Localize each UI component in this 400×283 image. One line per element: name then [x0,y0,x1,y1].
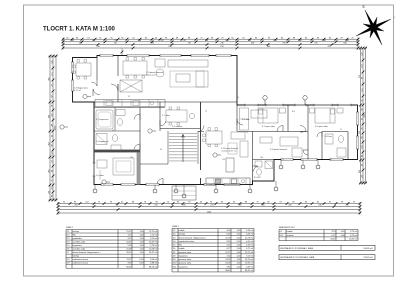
svg-text:1,88 m2: 1,88 m2 [150,263,158,265]
windows north walls [100,54,113,57]
facade marker circles [93,96,320,198]
svg-text:10,95 m2: 10,95 m2 [245,263,254,265]
furniture apt2 kitchen counter [206,158,250,184]
svg-text:95: 95 [112,130,114,132]
furniture apt1 big dining table [123,58,147,79]
total box NETO [279,245,375,250]
svg-text:dnevni boravak i blagovaonica: dnevni boravak i blagovaonica [179,236,207,239]
furniture annex bathroom [255,161,273,175]
reference bubbles [60,94,221,184]
dimension chain left [48,55,57,202]
interior door swing arcs [91,80,322,185]
svg-text:kuhinja: kuhinja [73,256,80,258]
svg-text:60: 60 [210,184,212,186]
svg-text:7,52 m2: 7,52 m2 [246,255,254,257]
svg-text:98,74 m2: 98,74 m2 [149,266,158,268]
svg-text:zajednicka terasa: zajednicka terasa [179,240,196,243]
svg-text:10,28: 10,28 [126,249,132,251]
svg-text:5,85 m2: 5,85 m2 [246,266,254,268]
svg-text:TLOCRT 1. KATA M 1:100: TLOCRT 1. KATA M 1:100 [43,27,116,33]
svg-text:10,45: 10,45 [330,239,336,241]
svg-text:94,87 m2: 94,87 m2 [245,270,254,272]
svg-text:WC: WC [179,245,183,247]
svg-text:25,76: 25,76 [225,237,231,239]
furniture apt1 kitchen counter [95,100,165,107]
svg-text:stubiste: stubiste [287,234,295,237]
svg-text:10,47: 10,47 [126,242,132,244]
svg-text:3.5 WC: 3.5 WC [254,177,261,179]
svg-text:14,55: 14,55 [225,259,231,261]
interior walls [94,56,348,185]
svg-text:4,34 m2: 4,34 m2 [246,230,254,232]
svg-text:WC: WC [73,235,77,237]
svg-text:240: 240 [260,157,263,159]
svg-text:219,82 m2: 219,82 m2 [363,257,373,259]
svg-text:240: 240 [300,132,303,134]
furniture bathroom upper fixtures [96,110,125,130]
svg-text:STAN 3: STAN 3 [172,225,180,228]
furniture apt1 living room (sofa rug table) [155,59,208,87]
svg-text:kuhinja: kuhinja [179,234,186,236]
svg-text:1.2 kupaonica: 1.2 kupaonica [96,119,109,121]
svg-text:60: 60 [160,149,162,151]
svg-text:196,82 m2: 196,82 m2 [363,248,373,250]
svg-text:6,77 m2: 6,77 m2 [246,248,254,250]
svg-text:110: 110 [222,159,225,161]
svg-text:60: 60 [237,97,239,99]
svg-text:garderoba: garderoba [73,237,83,240]
svg-text:70: 70 [282,159,284,161]
svg-text:260: 260 [130,157,133,159]
svg-text:1.4 soba: 1.4 soba [96,175,105,177]
svg-text:15,12: 15,12 [126,231,132,233]
svg-text:96,87: 96,87 [225,270,231,272]
svg-text:15,77 m2: 15,77 m2 [245,252,254,254]
small inline dimensions [112,96,342,186]
svg-text:1.7 soba: 1.7 soba [162,115,171,117]
compass rose north arrow [356,5,395,45]
svg-text:95: 95 [128,96,130,98]
svg-text:10,95: 10,95 [225,263,231,265]
svg-text:15,12 m2: 15,12 m2 [149,231,158,233]
dimension chain bottom [57,202,362,215]
svg-text:hodnik: hodnik [287,231,294,233]
svg-text:I: I [394,16,395,20]
table ZAJEDNICKI DIO [279,230,358,241]
svg-text:2,35 m2: 2,35 m2 [246,245,254,247]
svg-text:6,35 m2: 6,35 m2 [246,234,254,236]
room schedule table STAN 3 [172,229,254,272]
svg-text:3,15 m2: 3,15 m2 [150,238,158,240]
svg-text:4,61 m2: 4,61 m2 [246,241,254,243]
windows west and east walls [71,62,74,73]
svg-text:10,45 m2: 10,45 m2 [349,239,358,241]
dimension chain top [62,37,360,56]
svg-text:10,28 m2: 10,28 m2 [149,249,158,251]
svg-text:zasebna soba: zasebna soba [73,249,86,251]
svg-text:spavaca soba: spavaca soba [179,263,192,265]
svg-text:3.3 dnevni boravak: 3.3 dnevni boravak [270,149,287,151]
svg-text:i kuhinja 26,47 m2: i kuhinja 26,47 m2 [221,150,236,152]
svg-text:26,47 m2: 26,47 m2 [149,252,158,254]
svg-text:kuhinja: kuhinja [73,231,80,233]
furniture apt2 sofa group [228,132,248,157]
svg-text:2.9 stubiste: 2.9 stubiste [172,125,183,128]
svg-text:hodnik: hodnik [179,248,186,250]
furniture bathroom right wing [325,134,346,157]
svg-text:kupaonica: kupaonica [179,255,189,257]
svg-text:4,92 m2: 4,92 m2 [74,90,81,92]
svg-text:1.3 kupaonica: 1.3 kupaonica [96,141,109,143]
furniture bedroom1 bed [258,108,286,123]
svg-text:6,72 m2: 6,72 m2 [350,235,358,237]
svg-text:10,47 m2: 10,47 m2 [149,242,158,244]
svg-text:3.4 soba: 3.4 soba [242,119,251,121]
svg-text:kupaonica: kupaonica [73,245,83,247]
svg-text:spavaca soba: spavaca soba [179,252,192,254]
staircase [169,134,197,163]
furniture right wing room1 [240,108,268,130]
svg-text:blagovaonica: blagovaonica [146,74,158,76]
svg-text:3.9 spav. soba: 3.9 spav. soba [315,126,329,128]
svg-text:spavaca soba: spavaca soba [179,259,192,261]
svg-text:70: 70 [246,132,248,134]
svg-text:kupaonica: kupaonica [179,266,189,268]
svg-text:3.8 kup.: 3.8 kup. [325,136,333,138]
svg-text:25,76 m2: 25,76 m2 [245,237,254,239]
svg-text:3.7 spav. soba: 3.7 spav. soba [262,126,276,128]
exterior walls footprint [73,56,358,185]
svg-text:5,78 m2: 5,78 m2 [150,245,158,247]
windows south walls [101,183,113,186]
svg-text:15,77: 15,77 [225,252,231,254]
entrance porch steps [172,186,196,200]
svg-text:ZAJEDNICKI DIO: ZAJEDNICKI DIO [279,226,295,229]
svg-text:dnevni boravak, blagovaonica i: dnevni boravak, blagovaonica i [73,251,101,254]
svg-text:STAN 2: STAN 2 [66,226,74,229]
svg-text:UKUPNA BRUTO POVRSINA 1. KATA: UKUPNA BRUTO POVRSINA 1. KATA [280,256,315,259]
svg-text:26,47: 26,47 [126,252,132,254]
furniture dining room left (table and chairs) [73,60,91,80]
furniture sideboard crossed [120,80,142,92]
svg-text:zasebna soba: zasebna soba [73,242,86,244]
svg-text:3,73 m2: 3,73 m2 [350,231,358,233]
svg-text:70: 70 [340,129,342,131]
svg-text:hodnik: hodnik [179,230,186,232]
furniture lower rooms right wing [260,137,302,157]
svg-text:80: 80 [330,159,332,161]
furniture bedroom2 bed [310,108,344,123]
furniture apt2 dining table [203,128,222,147]
total box BRUTO [279,255,375,260]
svg-text:11,27: 11,27 [126,259,132,261]
svg-text:92,45: 92,45 [126,266,132,268]
svg-text:14,55 m2: 14,55 m2 [245,259,254,261]
svg-text:1,75 m2: 1,75 m2 [150,235,158,237]
svg-text:natkrivena terasa: natkrivena terasa [73,258,89,261]
furniture bathroom lower fixtures [96,134,121,151]
dimension chain right [359,47,367,185]
furniture utility room bottom-left [97,158,134,180]
svg-text:natkrivena terasa: natkrivena terasa [73,262,89,265]
furniture top-centre room [166,107,195,125]
svg-text:5,64 m2: 5,64 m2 [150,259,158,261]
svg-text:75: 75 [205,111,207,113]
svg-text:UKUPNA NETO POVRSINA 1. KATA: UKUPNA NETO POVRSINA 1. KATA [280,247,313,250]
room schedule table STAN 2 [66,230,158,269]
room labels [74,72,333,179]
